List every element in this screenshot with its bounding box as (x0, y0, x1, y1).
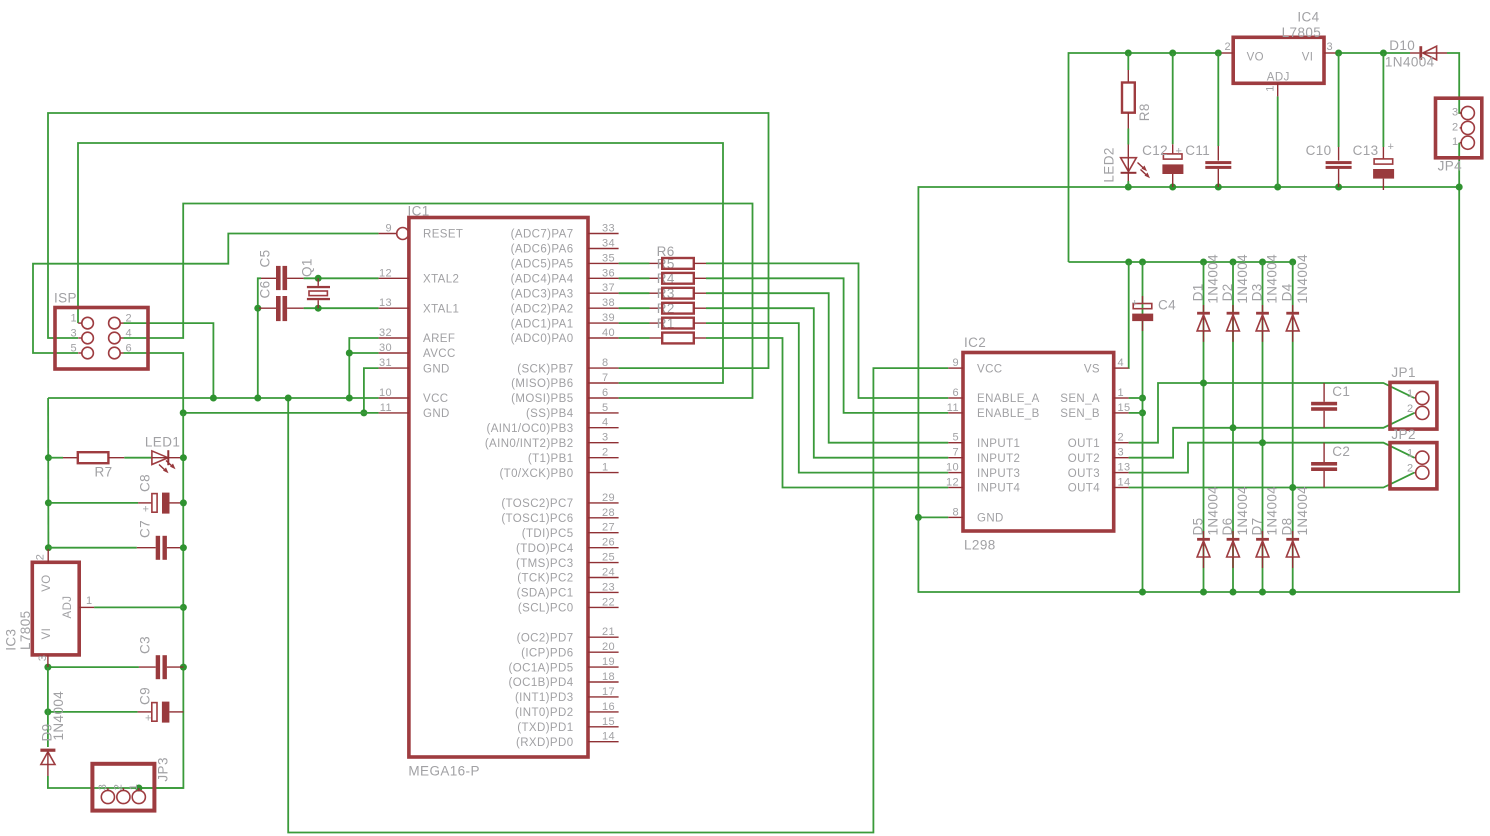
wire C13 column green (1382, 53, 1384, 147)
IC1 pin 1 (T0/XCK)PB0 (499, 462, 618, 480)
svg-text:VCC: VCC (977, 363, 1002, 375)
ISP label (54, 291, 77, 306)
svg-text:15: 15 (602, 716, 615, 728)
svg-text:(T1)PB1: (T1)PB1 (528, 453, 574, 465)
IC1 pin 5 (SS)PB4 (526, 402, 619, 420)
svg-text:(SCL)PC0: (SCL)PC0 (518, 603, 574, 615)
wire GND column left section (139, 413, 187, 788)
wire C5/C6 column to VCC rail (254, 278, 261, 401)
IC1 pin 6 (MOSI)PB5 (511, 387, 618, 405)
wire IC2 GND net to top-right and bottom rails (915, 187, 1459, 521)
IC2 pin 2 OUT1 (1068, 432, 1129, 450)
svg-text:40: 40 (602, 327, 615, 339)
svg-text:MEGA16-P: MEGA16-P (408, 764, 479, 779)
IC2 pin 5 INPUT1 (948, 432, 1020, 450)
svg-text:(SDA)PC1: (SDA)PC1 (517, 588, 574, 600)
IC1 pin 36 (ADC4)PA4 (511, 267, 619, 285)
svg-text:13: 13 (379, 297, 392, 309)
svg-text:6: 6 (952, 387, 959, 399)
IC1 pin 12 XTAL2 (379, 267, 460, 285)
IC1 pin 20 (ICP)PD6 (521, 641, 619, 659)
capacitor C11 (1185, 143, 1231, 187)
JP3 pin 2 (112, 784, 130, 804)
svg-text:ENABLE_B: ENABLE_B (977, 408, 1040, 420)
svg-text:10: 10 (946, 462, 959, 474)
svg-text:VCC: VCC (423, 393, 448, 405)
svg-text:17: 17 (602, 686, 615, 698)
IC1 pin 22 (SCL)PC0 (518, 596, 619, 614)
svg-text:ADJ: ADJ (62, 596, 74, 619)
diode D5 1N4004 (1191, 486, 1221, 568)
svg-text:1: 1 (128, 784, 140, 791)
wire top rail dots (1125, 50, 1222, 57)
svg-text:VI: VI (1302, 52, 1314, 64)
JP4 pin 3 (1452, 106, 1474, 119)
svg-text:2: 2 (1407, 463, 1414, 475)
svg-text:15: 15 (1118, 402, 1131, 414)
wire C11 column green (1217, 53, 1219, 146)
svg-text:11: 11 (947, 402, 959, 414)
svg-text:1: 1 (1452, 136, 1459, 148)
svg-text:(OC2)PD7: (OC2)PD7 (517, 632, 574, 644)
IC1 pin 16 (INT0)PD2 (515, 701, 619, 719)
resistor R8 (1122, 70, 1152, 129)
IC1 pin 34 (ADC6)PA6 (511, 238, 619, 256)
svg-text:7: 7 (952, 447, 959, 459)
svg-text:OUT1: OUT1 (1068, 438, 1100, 450)
svg-text:1N4004: 1N4004 (51, 691, 66, 741)
svg-text:VS: VS (1084, 363, 1100, 375)
svg-text:22: 22 (602, 596, 615, 608)
IC1 pin 13 XTAL1 (379, 297, 460, 315)
capacitor C8 (polarized) (138, 474, 181, 516)
wire R6 element 2 to IC2 input (706, 278, 948, 413)
wire OUT3 net (1129, 439, 1415, 472)
svg-text:INPUT2: INPUT2 (977, 453, 1020, 465)
svg-text:28: 28 (602, 507, 615, 519)
wire MOSI net (ISP pin4 to IC1 PB5) (124, 204, 753, 399)
svg-text:Q1: Q1 (300, 258, 315, 277)
svg-text:IC4: IC4 (1297, 10, 1319, 25)
IC1 pin 14 (RXD)PD0 (516, 731, 619, 749)
IC2 value L298 (964, 538, 996, 553)
capacitor C12 (polarized) (1142, 143, 1183, 187)
IC1 pin 31 GND (379, 357, 450, 375)
svg-text:24: 24 (602, 567, 615, 579)
svg-text:JP1: JP1 (1391, 365, 1415, 380)
IC1 pin 39 (ADC1)PA1 (511, 312, 619, 330)
svg-text:1: 1 (1407, 448, 1414, 460)
wire R6 element 6 left lead (619, 337, 650, 339)
resistor bank label R6 (657, 244, 675, 259)
svg-text:16: 16 (602, 701, 615, 713)
svg-text:C4: C4 (1158, 298, 1176, 313)
resistor R7 (63, 452, 124, 479)
LED LED1 (124, 434, 180, 473)
svg-text:ISP: ISP (54, 291, 77, 306)
IC2 pin 15 SEN_B (1060, 402, 1130, 420)
IC1 pin 32 AREF (379, 327, 456, 345)
svg-text:C11: C11 (1185, 143, 1210, 158)
svg-text:C13: C13 (1353, 143, 1379, 158)
svg-text:14: 14 (1118, 477, 1131, 489)
wire C4/SEN column (1139, 262, 1146, 596)
svg-text:D5: D5 (1191, 517, 1206, 535)
wire R6 element 5 left lead (619, 322, 650, 324)
svg-text:GND: GND (423, 408, 450, 420)
svg-text:1N4004: 1N4004 (1206, 486, 1221, 536)
wire R6 element 3 left lead (619, 292, 650, 294)
IC4 labels (1282, 10, 1322, 41)
svg-text:3: 3 (1327, 41, 1334, 53)
svg-text:2: 2 (126, 313, 133, 325)
IC2 pin 13 OUT3 (1068, 462, 1131, 480)
svg-text:(RXD)PD0: (RXD)PD0 (516, 737, 574, 749)
svg-text:12: 12 (946, 477, 959, 489)
svg-text:VO: VO (1247, 52, 1264, 64)
svg-text:37: 37 (602, 282, 615, 294)
voltage regulator IC4 L7805 box (1222, 37, 1336, 96)
IC1 pin 19 (OC1A)PD5 (509, 656, 619, 674)
IC1 pin 24 (TCK)PC2 (517, 567, 618, 585)
svg-text:C10: C10 (1306, 143, 1332, 158)
svg-text:C8: C8 (138, 474, 153, 492)
diode D6 1N4004 (1220, 486, 1250, 568)
wire bottom rail y592 (918, 143, 1462, 592)
svg-text:(TOSC1)PC6: (TOSC1)PC6 (501, 513, 573, 525)
JP1 pin 1 (1407, 388, 1429, 405)
wire RESET net (IC1 pin9 to ISP pin5) (33, 234, 379, 354)
connector ISP box (55, 308, 148, 370)
wire OUT4 net (1129, 473, 1415, 491)
svg-text:1: 1 (602, 462, 609, 474)
svg-text:2: 2 (1452, 121, 1459, 133)
IC2 pin 11 ENABLE_B (947, 402, 1040, 420)
svg-text:C2: C2 (1332, 444, 1350, 459)
svg-text:23: 23 (602, 581, 615, 593)
svg-text:2: 2 (1224, 41, 1231, 53)
svg-text:33: 33 (602, 223, 615, 235)
svg-text:26: 26 (602, 537, 615, 549)
svg-text:3: 3 (97, 784, 109, 791)
svg-text:(SCK)PB7: (SCK)PB7 (517, 363, 573, 375)
wire IC3 VI column to D9 (47, 667, 49, 747)
svg-text:+: + (143, 504, 150, 516)
svg-text:D6: D6 (1220, 517, 1235, 535)
svg-text:D2: D2 (1220, 283, 1235, 301)
svg-text:3: 3 (37, 655, 49, 662)
svg-text:OUT4: OUT4 (1068, 483, 1100, 495)
svg-text:1: 1 (1407, 388, 1414, 400)
svg-text:19: 19 (602, 656, 615, 668)
svg-text:IC3: IC3 (4, 629, 19, 651)
capacitor C4 (polarized) (1132, 296, 1177, 331)
ISP pin 4 (109, 328, 132, 344)
resistor R6 element 1 (650, 256, 707, 271)
IC2 pin 9 VCC (948, 357, 1002, 375)
IC1 pin 11 GND (379, 402, 450, 420)
svg-text:+: + (1132, 298, 1139, 310)
svg-text:D8: D8 (1280, 517, 1295, 535)
svg-text:3: 3 (1118, 447, 1125, 459)
svg-text:13: 13 (1118, 462, 1131, 474)
wire top rail y53 left part (1069, 53, 1222, 262)
svg-text:4: 4 (1118, 357, 1125, 369)
svg-text:(ADC3)PA3: (ADC3)PA3 (511, 288, 574, 300)
svg-text:C3: C3 (138, 636, 153, 654)
IC1 pin 4 (AIN1/OC0)PB3 (486, 417, 618, 435)
svg-text:3: 3 (1452, 107, 1459, 119)
op-amp U1 substitute: microcontroller IC1 MEGA16-P box (409, 218, 588, 758)
resistor R6 element 3 (650, 286, 707, 301)
IC1 pin 35 (ADC5)PA5 (511, 252, 619, 270)
IC2 pin 6 ENABLE_A (948, 387, 1039, 405)
svg-text:(TXD)PD1: (TXD)PD1 (517, 722, 573, 734)
svg-text:27: 27 (602, 522, 615, 534)
wire R6 element 6 to IC2 input (706, 338, 948, 488)
svg-text:INPUT4: INPUT4 (977, 483, 1021, 495)
diode D3 1N4004 (1250, 254, 1280, 342)
wire R6 element 5 to IC2 input (706, 323, 948, 473)
svg-text:7: 7 (602, 372, 609, 384)
IC1 pin 23 (SDA)PC1 (517, 581, 619, 599)
wire AREF/AVCC to VCC (346, 338, 379, 402)
IC1 pin 7 (MISO)PB6 (511, 372, 618, 390)
svg-text:1N4004: 1N4004 (1235, 486, 1250, 536)
svg-text:+: + (145, 713, 152, 725)
IC3 labels (4, 610, 33, 650)
wire R8/LED2 column green parts (1127, 53, 1129, 187)
connector JP1 box (1390, 365, 1437, 429)
IC1 pin 30 AVCC (379, 342, 456, 360)
svg-text:21: 21 (602, 626, 615, 638)
IC1 pin 9 RESET (379, 223, 464, 241)
wire D9 to JP3 row (48, 776, 184, 792)
svg-text:VO: VO (41, 574, 53, 591)
IC3 pin texts (35, 554, 93, 662)
svg-text:D1: D1 (1191, 283, 1206, 301)
wire VCC column down to bottom rail (285, 368, 949, 832)
svg-text:D3: D3 (1250, 283, 1265, 301)
svg-text:+: + (1176, 146, 1183, 158)
svg-text:D7: D7 (1250, 517, 1265, 535)
resistor R6 element 5 (650, 316, 707, 331)
wire OUT1 net (1129, 380, 1415, 443)
svg-text:(AIN1/OC0)PB3: (AIN1/OC0)PB3 (486, 423, 573, 435)
svg-text:5: 5 (70, 343, 77, 355)
JP3 pin 1 (128, 784, 146, 804)
svg-text:(TDO)PC4: (TDO)PC4 (516, 543, 574, 555)
IC1 pin 33 (ADC7)PA7 (511, 223, 619, 241)
svg-text:RESET: RESET (423, 229, 463, 241)
svg-text:(ADC0)PA0: (ADC0)PA0 (511, 333, 574, 345)
wire R6 element 2 left lead (619, 277, 650, 279)
svg-text:AREF: AREF (423, 333, 455, 345)
svg-text:AVCC: AVCC (423, 348, 456, 360)
wire C9 row (44, 708, 137, 715)
svg-text:8: 8 (602, 357, 609, 369)
IC4 pin texts (1224, 41, 1333, 92)
svg-text:(AIN0/INT2)PB2: (AIN0/INT2)PB2 (485, 438, 574, 450)
svg-text:3: 3 (70, 328, 77, 340)
ISP pin 2 (109, 313, 132, 329)
svg-text:20: 20 (602, 641, 615, 653)
svg-text:34: 34 (602, 238, 615, 250)
svg-text:4: 4 (602, 417, 609, 429)
IC1 pin 29 (TOSC2)PC7 (501, 492, 618, 510)
diode D10 1N4004 (1385, 38, 1447, 69)
svg-text:R7: R7 (95, 465, 113, 480)
svg-text:OUT2: OUT2 (1068, 453, 1100, 465)
wire C8 row left (48, 502, 138, 504)
wire XTAL2 net (304, 275, 379, 282)
svg-text:C7: C7 (138, 520, 153, 538)
svg-text:D10: D10 (1389, 38, 1415, 53)
svg-text:6: 6 (602, 387, 609, 399)
svg-text:XTAL1: XTAL1 (423, 303, 459, 315)
svg-text:GND: GND (423, 363, 450, 375)
svg-text:2: 2 (602, 447, 609, 459)
svg-text:38: 38 (602, 297, 615, 309)
svg-text:ENABLE_A: ENABLE_A (977, 393, 1040, 405)
JP2 pin 1 (1407, 448, 1429, 465)
svg-text:(SS)PB4: (SS)PB4 (526, 408, 574, 420)
resistor R6 element 2 (650, 271, 707, 286)
svg-text:(T0/XCK)PB0: (T0/XCK)PB0 (499, 468, 573, 480)
wire C12 column green (1172, 53, 1174, 144)
wire D10 to JP4 pin3 (1447, 53, 1462, 113)
connector JP3 box (92, 757, 170, 810)
capacitor C2 (1311, 443, 1350, 488)
capacitor C6 (257, 280, 303, 321)
capacitor C3 (138, 636, 184, 679)
svg-text:1N4004: 1N4004 (1206, 254, 1221, 304)
svg-text:3: 3 (602, 432, 609, 444)
IC1 pin 21 (OC2)PD7 (517, 626, 619, 644)
svg-text:35: 35 (602, 252, 615, 264)
svg-text:L298: L298 (964, 538, 996, 553)
svg-text:25: 25 (602, 552, 615, 564)
svg-text:5: 5 (952, 432, 959, 444)
capacitor C10 (1306, 143, 1352, 187)
IC2 pin 3 OUT2 (1068, 447, 1129, 465)
ISP pin 1 (70, 313, 93, 329)
wire VCC rail (IC1 VCC row) (48, 397, 379, 399)
resistor R6 element 6 (650, 333, 707, 344)
wire R7 row left (48, 457, 63, 459)
IC1 pin 37 (ADC3)PA3 (511, 282, 619, 300)
svg-text:JP2: JP2 (1391, 427, 1415, 442)
svg-text:1N4004: 1N4004 (1295, 254, 1310, 304)
svg-text:+: + (1388, 141, 1395, 153)
wire SCK net (ISP pin3 to IC1 PB7) (48, 113, 769, 368)
IC2 pin 4 VS (1084, 357, 1129, 375)
LED LED2 (1102, 145, 1151, 183)
IC1 pin 25 (TMS)PC3 (516, 552, 619, 570)
svg-text:9: 9 (385, 223, 392, 235)
IC1 pin 26 (TDO)PC4 (516, 537, 619, 555)
svg-text:INPUT1: INPUT1 (977, 438, 1020, 450)
svg-text:31: 31 (379, 357, 392, 369)
svg-text:(MOSI)PB5: (MOSI)PB5 (511, 393, 573, 405)
wire OUT2 net (1129, 413, 1415, 458)
svg-text:C1: C1 (1332, 384, 1350, 399)
wire top rail right part (IC4 VI to D10) (1335, 50, 1410, 57)
IC1 pin 27 (TDI)PC5 (522, 522, 619, 540)
svg-text:LED2: LED2 (1102, 147, 1117, 182)
svg-text:1N4004: 1N4004 (1295, 486, 1310, 536)
svg-text:OUT3: OUT3 (1068, 468, 1100, 480)
svg-text:32: 32 (379, 327, 392, 339)
IC1 pin 8 (SCK)PB7 (517, 357, 618, 375)
wire VS rail y262 (1069, 259, 1297, 266)
wire SEN_A stub wire (1129, 397, 1143, 399)
svg-text:1: 1 (86, 595, 93, 607)
IC2 label (964, 335, 986, 350)
wire IC1 GND pin31 down to GND row (360, 368, 378, 416)
svg-text:LED1: LED1 (145, 434, 180, 449)
svg-text:D4: D4 (1280, 283, 1295, 301)
svg-text:1N4004: 1N4004 (1265, 254, 1280, 304)
IC1 value MEGA16-P (408, 764, 479, 779)
svg-text:6: 6 (126, 343, 133, 355)
svg-text:(ADC7)PA7: (ADC7)PA7 (511, 229, 574, 241)
wire R6 element 3 to IC2 input (706, 293, 948, 443)
svg-text:9: 9 (952, 357, 959, 369)
IC2 pin 7 INPUT2 (948, 447, 1020, 465)
ISP pin 3 (70, 328, 93, 344)
svg-text:(TMS)PC3: (TMS)PC3 (516, 558, 574, 570)
wire ISP pin2 to VCC rail (124, 323, 217, 401)
svg-text:39: 39 (602, 312, 615, 324)
svg-text:INPUT3: INPUT3 (977, 468, 1020, 480)
wire D4/D8 column (1289, 262, 1296, 596)
svg-text:JP3: JP3 (156, 757, 171, 781)
svg-text:SEN_A: SEN_A (1060, 393, 1100, 405)
svg-text:GND: GND (977, 513, 1004, 525)
svg-text:2: 2 (1118, 432, 1125, 444)
svg-text:18: 18 (602, 671, 615, 683)
svg-text:(ADC5)PA5: (ADC5)PA5 (511, 259, 574, 271)
wire R6 element 1 to IC2 input (706, 263, 948, 398)
svg-text:(MISO)PB6: (MISO)PB6 (511, 378, 573, 390)
ISP pin 5 (70, 343, 93, 359)
IC1 pin 17 (INT1)PD3 (515, 686, 619, 704)
svg-text:1N4004: 1N4004 (1265, 486, 1280, 536)
wire R6 element 4 to IC2 input (706, 308, 948, 458)
svg-text:4: 4 (126, 328, 133, 340)
svg-text:JP4: JP4 (1438, 159, 1463, 174)
IC1 label (408, 204, 430, 219)
JP1 pin 2 (1407, 403, 1429, 420)
voltage regulator IC3 L7805 box (32, 549, 94, 667)
svg-text:2: 2 (35, 554, 47, 561)
capacitor C13 (polarized) (1353, 141, 1395, 190)
svg-text:(TCK)PC2: (TCK)PC2 (517, 573, 573, 585)
diode D4 1N4004 (1280, 254, 1310, 342)
svg-text:SEN_B: SEN_B (1060, 408, 1100, 420)
wire IC3 ADJ to GND column (94, 606, 183, 608)
capacitor C1 (1311, 383, 1350, 428)
JP3 pin 3 (97, 784, 115, 804)
svg-text:(ADC1)PA1: (ADC1)PA1 (511, 318, 574, 330)
svg-text:(INT0)PD2: (INT0)PD2 (515, 707, 574, 719)
svg-text:(ADC2)PA2: (ADC2)PA2 (511, 303, 574, 315)
svg-text:29: 29 (602, 492, 615, 504)
svg-text:IC1: IC1 (408, 204, 430, 219)
wire C3 row (44, 664, 138, 671)
IC1 pin 15 (TXD)PD1 (517, 716, 618, 734)
